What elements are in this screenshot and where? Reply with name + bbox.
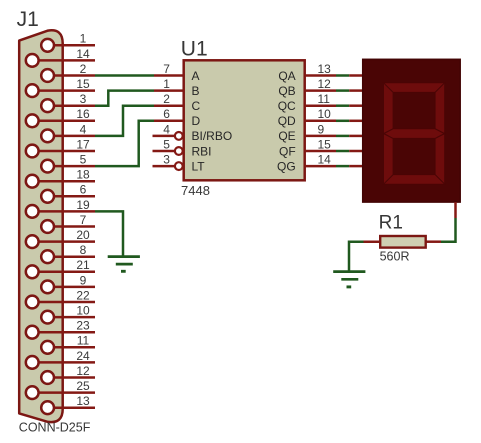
wire J1 pin5 to U1 D xyxy=(95,121,154,166)
wire R1 to ground xyxy=(349,242,364,273)
J1 pin 8 xyxy=(41,243,95,263)
resistor R1 body xyxy=(380,236,426,248)
display pin QG stub xyxy=(349,165,363,168)
J1 pin 25 xyxy=(26,379,95,399)
U1 pin 3 (LT) xyxy=(153,153,206,174)
svg-text:1: 1 xyxy=(163,77,170,91)
svg-text:3: 3 xyxy=(80,92,87,106)
svg-text:4: 4 xyxy=(163,122,170,136)
svg-text:13: 13 xyxy=(318,62,332,76)
svg-text:2: 2 xyxy=(163,92,170,106)
svg-text:14: 14 xyxy=(76,47,90,61)
svg-text:3: 3 xyxy=(163,153,170,167)
svg-text:BI/RBO: BI/RBO xyxy=(192,129,233,143)
U1 pin 7 (A) xyxy=(154,62,200,83)
svg-text:QF: QF xyxy=(279,144,296,158)
J1 pin 13 xyxy=(41,394,95,414)
J1 pin 24 xyxy=(26,349,95,369)
svg-text:U1: U1 xyxy=(181,38,208,61)
svg-text:R1: R1 xyxy=(379,212,403,233)
wire display pin to resistor xyxy=(441,218,456,242)
J1 pin 22 xyxy=(26,288,95,308)
display pin QF stub xyxy=(349,150,363,153)
svg-text:QG: QG xyxy=(277,159,296,173)
J1 pin 2 xyxy=(41,62,95,82)
U1 pin 4 (BI/RBO) xyxy=(153,122,233,143)
display pin QB stub xyxy=(349,89,363,92)
U1 pin 9 (QE) xyxy=(278,122,336,143)
U1 pin 10 (QD) xyxy=(278,107,336,128)
svg-text:7: 7 xyxy=(163,62,170,76)
J1 pin 12 xyxy=(41,364,95,384)
svg-text:10: 10 xyxy=(318,107,332,121)
svg-text:9: 9 xyxy=(80,273,87,287)
display pin QA stub xyxy=(349,74,363,77)
svg-text:11: 11 xyxy=(318,92,331,106)
J1 pin 5 xyxy=(41,153,95,173)
J1 pin 18 xyxy=(26,168,95,188)
display segment B xyxy=(435,83,445,134)
ground symbol (right) xyxy=(333,272,365,287)
connector J1 body xyxy=(19,30,63,422)
display segment C xyxy=(435,134,445,185)
svg-text:A: A xyxy=(192,69,200,83)
svg-text:LT: LT xyxy=(192,159,206,173)
display segment A xyxy=(384,83,445,93)
svg-text:8: 8 xyxy=(80,243,87,257)
svg-text:C: C xyxy=(192,99,201,113)
U1 pin 14 (QG) xyxy=(277,153,336,174)
svg-text:B: B xyxy=(192,84,200,98)
svg-text:7: 7 xyxy=(80,213,87,227)
svg-text:6: 6 xyxy=(80,183,87,197)
display segment F xyxy=(384,83,394,134)
svg-text:12: 12 xyxy=(76,364,90,378)
J1 pin 15 xyxy=(26,77,95,97)
svg-text:1: 1 xyxy=(80,32,87,46)
svg-text:11: 11 xyxy=(77,334,90,348)
U1 pin 13 (QA) xyxy=(278,62,336,83)
svg-text:24: 24 xyxy=(76,349,90,363)
svg-text:23: 23 xyxy=(76,319,90,333)
J1 pin 11 xyxy=(41,334,95,354)
svg-text:18: 18 xyxy=(76,168,90,182)
J1 pin 20 xyxy=(26,228,95,248)
wire U1 QF to display xyxy=(336,150,349,153)
wire U1 QA to display xyxy=(336,74,349,77)
U1 pin 11 (QC) xyxy=(278,92,336,113)
svg-text:QD: QD xyxy=(278,114,296,128)
svg-text:16: 16 xyxy=(76,107,90,121)
svg-text:560R: 560R xyxy=(380,250,410,264)
J1 pin 9 xyxy=(41,273,95,293)
svg-text:5: 5 xyxy=(80,153,87,167)
wire U1 QE to display xyxy=(336,135,349,138)
svg-text:19: 19 xyxy=(76,198,90,212)
J1 pin 3 xyxy=(41,92,95,112)
svg-text:QE: QE xyxy=(278,129,295,143)
svg-text:10: 10 xyxy=(76,304,90,318)
J1 pin 16 xyxy=(26,107,95,127)
display segment G xyxy=(384,129,444,139)
J1 pin 17 xyxy=(26,137,95,157)
U1 pin 6 (D) xyxy=(154,107,201,128)
J1 pin 6 xyxy=(41,183,95,203)
ground symbol (left) xyxy=(108,257,140,272)
U1 pin 1 (B) xyxy=(154,77,200,98)
J1 pin 21 xyxy=(26,258,95,278)
svg-text:RBI: RBI xyxy=(192,144,212,158)
wire J1 pin19 to ground xyxy=(95,211,123,257)
op-amp-style IC U1 7448 body xyxy=(184,60,305,180)
wire U1 QB to display xyxy=(336,89,349,92)
svg-text:7448: 7448 xyxy=(181,183,210,198)
svg-text:12: 12 xyxy=(318,77,332,91)
svg-text:4: 4 xyxy=(80,122,87,136)
J1 pin 4 xyxy=(41,122,95,142)
J1 pin 23 xyxy=(26,319,95,339)
svg-text:9: 9 xyxy=(318,122,325,136)
svg-text:25: 25 xyxy=(76,379,90,393)
svg-text:QB: QB xyxy=(278,84,295,98)
J1 pin 7 xyxy=(41,213,95,233)
svg-text:QC: QC xyxy=(278,99,296,113)
display pin QC stub xyxy=(349,104,363,107)
U1 pin 12 (QB) xyxy=(278,77,336,98)
svg-text:QA: QA xyxy=(278,69,295,83)
J1 pin 10 xyxy=(41,304,95,324)
display pin QD stub xyxy=(349,120,363,123)
display segment D xyxy=(384,175,445,185)
resistor R1 right stub xyxy=(426,240,441,243)
svg-text:15: 15 xyxy=(76,77,90,91)
display common pin stub xyxy=(454,202,457,218)
svg-text:2: 2 xyxy=(80,62,87,76)
svg-text:J1: J1 xyxy=(17,8,39,31)
svg-text:13: 13 xyxy=(76,394,90,408)
svg-text:14: 14 xyxy=(318,153,332,167)
J1 pin 14 xyxy=(26,47,95,67)
wire J1 pin3 to U1 B xyxy=(95,91,154,106)
U1 pin 15 (QF) xyxy=(279,137,336,158)
svg-text:CONN-D25F: CONN-D25F xyxy=(19,421,91,435)
svg-text:20: 20 xyxy=(76,228,90,242)
svg-text:21: 21 xyxy=(76,258,90,272)
display pin QE stub xyxy=(349,135,363,138)
svg-text:5: 5 xyxy=(163,137,170,151)
svg-text:15: 15 xyxy=(318,137,332,151)
svg-text:17: 17 xyxy=(76,137,90,151)
svg-text:22: 22 xyxy=(76,288,90,302)
wire J1 pin4 to U1 C xyxy=(95,106,154,136)
svg-text:D: D xyxy=(192,114,201,128)
wire U1 QC to display xyxy=(336,104,349,107)
resistor R1 left stub xyxy=(364,240,381,243)
7-segment display body xyxy=(363,59,461,202)
wire U1 QG to display xyxy=(336,165,349,168)
J1 pin 19 xyxy=(26,198,95,218)
U1 pin 5 (RBI) xyxy=(153,137,212,158)
U1 pin 2 (C) xyxy=(154,92,201,113)
J1 pin 1 xyxy=(41,32,95,52)
wire U1 QD to display xyxy=(336,120,349,123)
wire J1 pin2 to U1 A xyxy=(95,74,154,77)
svg-text:6: 6 xyxy=(163,107,170,121)
display segment E xyxy=(384,134,394,185)
